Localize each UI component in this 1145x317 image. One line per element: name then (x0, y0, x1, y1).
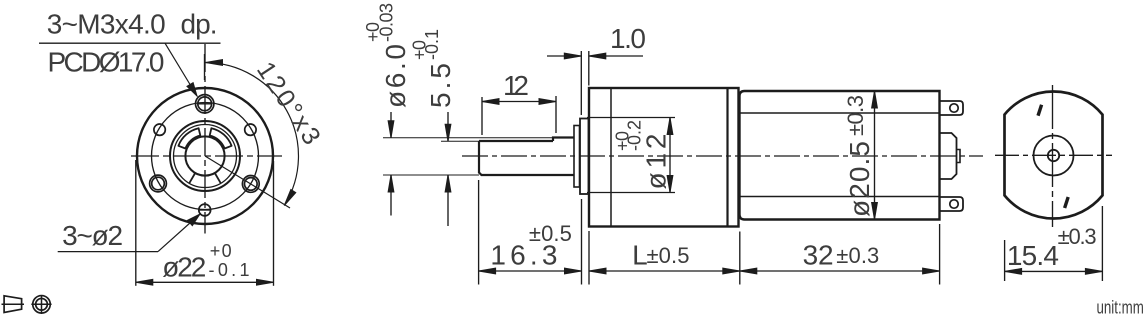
svg-text:ø12: ø12 (641, 134, 672, 190)
svg-text:±0.5: ±0.5 (647, 243, 690, 268)
svg-text:3~M3x4.0: 3~M3x4.0 (47, 9, 166, 40)
svg-text:32: 32 (803, 240, 834, 271)
svg-text:ø22: ø22 (162, 252, 206, 283)
svg-text:-0.2: -0.2 (625, 120, 645, 151)
svg-text:120°x3: 120°x3 (251, 57, 326, 150)
svg-text:L: L (632, 240, 648, 271)
svg-text:3~ø2: 3~ø2 (62, 220, 123, 251)
svg-text:ø6.0: ø6.0 (380, 44, 411, 108)
svg-text:±0.3: ±0.3 (1058, 224, 1097, 249)
svg-text:-0.1: -0.1 (209, 260, 250, 280)
svg-text:-0.1: -0.1 (422, 29, 442, 60)
svg-text:12: 12 (503, 70, 529, 101)
svg-text:ø20.5: ø20.5 (844, 141, 875, 217)
svg-text:5.5: 5.5 (425, 63, 456, 108)
svg-text:-0.03: -0.03 (377, 3, 397, 42)
svg-text:PCDØ17.0: PCDØ17.0 (48, 47, 165, 78)
svg-text:unit:mm: unit:mm (1097, 297, 1144, 317)
svg-text:dp.: dp. (181, 9, 218, 40)
svg-text:16.3: 16.3 (490, 240, 557, 271)
svg-text:1.0: 1.0 (610, 23, 646, 54)
svg-text:±0.3: ±0.3 (843, 95, 868, 136)
svg-text:15.4: 15.4 (1007, 240, 1059, 271)
svg-text:+0: +0 (210, 241, 232, 261)
svg-text:±0.3: ±0.3 (836, 243, 879, 268)
